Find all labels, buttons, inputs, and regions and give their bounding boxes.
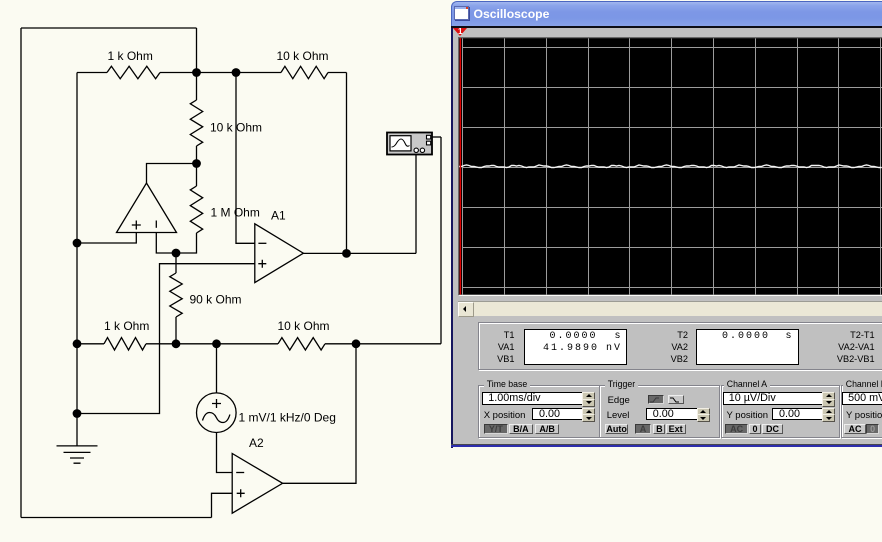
node A (junction 1k/10k/10k) [192,68,201,77]
scope display background [458,38,882,297]
wire bottom rail middle [176,343,278,345]
readout panel [478,322,882,370]
A/B button [535,424,560,435]
Time base scale input [482,392,586,405]
readout value box 2 [696,329,799,365]
oscilloscope window body [453,28,882,444]
resistor R5 90 k Ohm [170,253,182,344]
wire A1 output up to scope terminal [415,155,417,253]
X position input [532,408,587,421]
wire bottom rail [77,343,104,345]
label R1 1 k Ohm [108,49,153,63]
Channel B scale input [842,392,882,405]
label R4 1 M Ohm [211,206,260,220]
readout label T2 [677,330,688,340]
wire R2 to A1 output node [346,73,348,254]
svg-text:1 k Ohm: 1 k Ohm [108,49,153,63]
Edge label [608,395,630,406]
svg-text:A1: A1 [271,209,286,223]
Time base scale spinner [582,392,596,405]
svg-text:1 k Ohm: 1 k Ohm [104,319,149,333]
AC button B [844,424,865,435]
Channel A group box [721,385,840,438]
wire bottom outer [21,517,212,519]
Channel A scale spinner [822,392,836,405]
wire A1 output [303,252,416,254]
Channel B group box [841,385,882,438]
X position spinner [582,408,596,421]
B/A button [509,424,533,435]
node G (A1 output) [342,249,351,258]
svg-text:10 k Ohm: 10 k Ohm [277,49,329,63]
wire top rail [21,27,197,29]
B button [653,424,665,435]
svg-text:1 M Ohm: 1 M Ohm [211,206,260,220]
node F (ground junction) [73,409,82,418]
svg-text:90 k Ohm: 90 k Ohm [190,293,242,307]
wire node B to A1 - input [236,73,255,244]
Y/T button (pressed) [484,424,509,435]
readout label VB1 [497,354,514,364]
label R3 10 k Ohm [210,121,262,135]
channel A trace [459,165,882,168]
svg-text:10 k Ohm: 10 k Ohm [278,319,330,333]
title bar separator line [451,26,882,27]
scope display [458,37,882,296]
wire source to A2 - input [217,433,233,473]
falling edge button [668,395,684,404]
Channel A scale input [723,392,826,405]
resistor R1 1 k Ohm (top left) [77,66,197,78]
node C (10k/1M/U1 output) [192,159,201,168]
Ext button [666,424,686,435]
AC button A (pressed) [725,424,748,435]
ground [57,414,98,464]
wire scope icon right terminal [432,136,441,138]
node B (junction to A1 inverting) [232,68,241,77]
readout label VA2-VA1 [838,342,874,352]
Time base group box [478,385,600,438]
readout label T1 [504,330,515,340]
wire to scope terminal 2 [440,137,442,344]
title bar icon [454,6,469,20]
A button (pressed) [635,424,650,435]
wire node A to node B [197,72,237,74]
Trigger group box [599,385,720,438]
scope grid [462,38,882,294]
label A1 [271,209,286,223]
title text Oscilloscope [474,7,550,21]
readout VA1 value [543,344,599,354]
Auto button [605,424,629,435]
wire left outer vertical [20,28,22,518]
wire U1 output to node C [147,164,197,184]
node D (left column to U1 +) [73,239,82,248]
readout label VB2 [671,354,688,364]
DC button A [762,424,782,435]
node I (90k bottom) [172,339,181,348]
readout value box 1 [524,329,627,365]
node H (bottom rail left) [73,339,82,348]
svg-text:A2: A2 [249,436,264,450]
label V1 value [239,411,336,425]
label R5 90 k Ohm [190,293,242,307]
readout label VB2-VB1 [837,354,875,364]
0 button A [749,424,761,435]
label A2 [249,436,264,450]
resistor R3 10 k Ohm (vertical) [190,73,202,164]
resistor R7 10 k Ohm (bottom) [278,338,441,350]
0 button B (pressed) [866,424,879,435]
oscilloscope icon XSC1 [387,133,432,155]
Level input [646,408,702,421]
readout T1 value [550,332,598,342]
rising edge button (pressed) [648,395,664,404]
resistor R4 1 M Ohm [176,164,203,254]
oscilloscope window left border [451,27,453,448]
node J (source top) [212,339,221,348]
Y position label B [846,410,882,421]
op-amp U1 (buffer, points up) [117,183,177,233]
wire top rail drop to node A [196,28,198,73]
resistor R6 1 k Ohm (bottom) [104,338,176,350]
readout label VA1 [498,342,515,352]
wire A1 + input to ground node [77,264,255,414]
oscilloscope window title bar [451,1,882,28]
wire U1 - input to node E [156,233,176,254]
Level spinner [697,408,711,421]
label R6 1 k Ohm [104,319,149,333]
wire node J to source [216,344,218,393]
X position label [484,410,526,421]
label R7 10 k Ohm [278,319,330,333]
wire A2 output to node K [283,344,356,484]
node K (A2 output junction) [352,339,361,348]
wire left column [76,73,78,414]
Y position label A [727,410,769,421]
cursor 1 marker triangle [453,28,467,36]
scope horizontal scrollbar [458,301,882,316]
cursor 1 red line [460,38,461,295]
source V1 1 mV/1 kHz/0 Deg [197,393,237,433]
circuit schematic [0,0,451,542]
resistor R2 10 k Ohm (top right) [236,66,347,78]
node E (U1 -/1M/90k) [172,249,181,258]
readout T2 value [722,332,770,342]
readout label VA2 [671,342,688,352]
wire U1 + input to left column [77,233,136,244]
op-amp A1 [255,224,304,283]
Level label [607,410,630,421]
wire to A2 + input [212,493,233,517]
Y position input A [772,408,827,421]
svg-text:1 mV/1 kHz/0 Deg: 1 mV/1 kHz/0 Deg [239,411,336,425]
op-amp A2 [232,454,282,514]
Y position spinner A [822,408,836,421]
readout label T2-T1 [850,330,875,340]
oscilloscope window bottom border [451,444,882,446]
label R2 10 k Ohm [277,49,329,63]
